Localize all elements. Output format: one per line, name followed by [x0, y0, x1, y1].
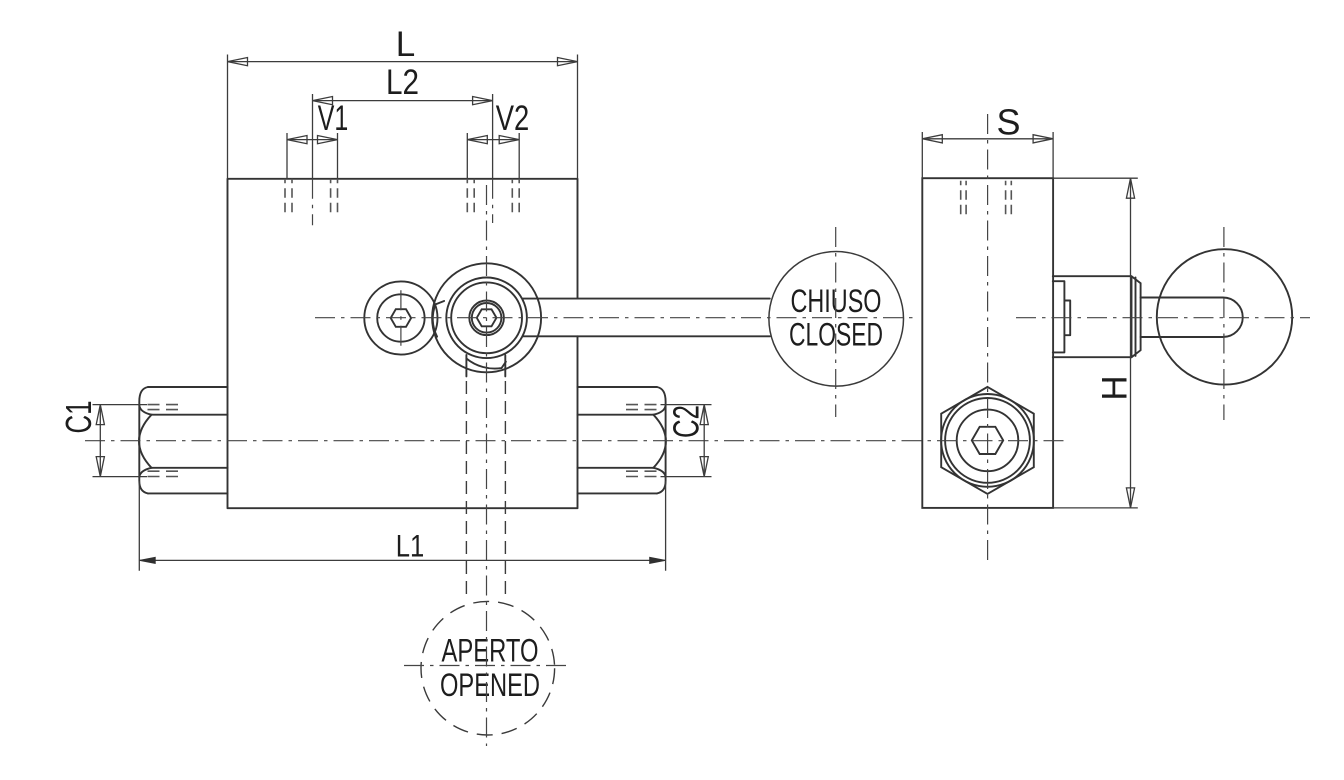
dimension V2: arrows — [467, 136, 487, 144]
dimension C1: arrows — [96, 405, 104, 425]
handle washer tab (left hook) — [433, 301, 444, 337]
dimension S: arrows — [922, 135, 942, 143]
port C2 thread hidden lines — [626, 405, 658, 477]
dimension H: extension lines — [1053, 178, 1138, 508]
dimension C2: line — [703, 405, 705, 477]
svg-text:APERTO: APERTO — [442, 633, 539, 669]
centerline: handle axis horizontal (side view) — [1016, 317, 1310, 319]
svg-text:L2: L2 — [386, 63, 419, 102]
valve body block (front view) — [228, 179, 578, 508]
handle washer tab (bottom hook) — [466, 359, 506, 369]
V2 bore hidden lines — [467, 179, 519, 215]
open-position handle hidden lines down to APERTO — [466, 381, 505, 599]
hex plug bolt (side view) — [941, 387, 1034, 494]
svg-text:S: S — [996, 102, 1020, 143]
handle knob ball (side view) — [1157, 249, 1292, 384]
centerline: valve stem vertical — [486, 185, 488, 746]
valve body block (side view) — [922, 178, 1053, 508]
centerline: V1 bore vertical — [312, 179, 314, 226]
centerline: ports axis horizontal — [85, 440, 1067, 442]
svg-text:H: H — [1096, 375, 1135, 400]
handle open-position sides (below hub) — [466, 355, 505, 376]
handle stem (side view) — [1141, 298, 1243, 338]
valve stem nut assembly (large circles, front view) — [432, 263, 541, 372]
svg-text:V1: V1 — [318, 99, 349, 138]
centerline: plug screw vertical (short) — [400, 290, 402, 346]
svg-text:V2: V2 — [496, 99, 530, 138]
dimension L1: extension lines — [139, 481, 665, 571]
dimension L: line — [228, 61, 578, 63]
dimension V1: line — [287, 139, 338, 141]
dimension L2: arrows — [313, 97, 333, 105]
dimension L2: extension lines — [313, 94, 493, 179]
centerline: CHIUSO balloon vertical — [835, 227, 837, 417]
svg-text:OPENED: OPENED — [440, 667, 540, 703]
handle bonnet (side view) — [1053, 276, 1141, 357]
lever handle bar (front view) — [523, 299, 770, 337]
dimension V2: extension lines — [467, 133, 519, 179]
dimension L2: line — [313, 100, 493, 102]
dimension S: extension lines — [922, 132, 1053, 178]
svg-text:L: L — [396, 25, 415, 64]
dimension C1: line — [99, 405, 101, 477]
svg-text:C1: C1 — [58, 401, 99, 434]
dimension L1: arrows — [140, 557, 156, 563]
svg-text:C2: C2 — [666, 405, 707, 438]
CHIUSO/CLOSED balloon circle — [769, 251, 904, 386]
dimension C2: arrows — [700, 405, 708, 425]
dimension V2: line — [467, 139, 519, 141]
svg-text:L1: L1 — [396, 528, 425, 564]
dimension C1: extension lines — [93, 405, 148, 477]
port C1 thread hidden lines — [148, 405, 180, 477]
port C1 hex fitting (left) — [139, 387, 228, 493]
APERTO/OPENED balloon circle (dashed) — [421, 601, 555, 735]
dimension V1: arrows — [287, 136, 307, 144]
stem plug screw (small circle, front view) — [364, 281, 437, 354]
centerline: knob vertical — [1223, 227, 1225, 420]
dimension H: arrows — [1126, 178, 1134, 198]
dimension L1: line — [140, 559, 666, 561]
centerline: side view block vertical — [987, 114, 989, 562]
port C2 hex fitting (right, mirrored) — [577, 387, 666, 493]
dimension L: extension lines — [228, 55, 578, 179]
dimension S: line — [922, 138, 1053, 140]
centerline: APERTO balloon horizontal — [404, 665, 568, 667]
dimension H: line — [1130, 178, 1132, 508]
dimension C2: extension lines — [661, 405, 712, 477]
dimension V1: extension lines — [287, 133, 338, 179]
V1 bore hidden lines — [285, 179, 338, 216]
centerline: lever axis horizontal (front view) — [315, 317, 915, 319]
dimension L: arrows — [228, 58, 248, 66]
centerline: V2 bore vertical — [492, 179, 494, 223]
side view bore hidden lines — [961, 181, 1012, 215]
